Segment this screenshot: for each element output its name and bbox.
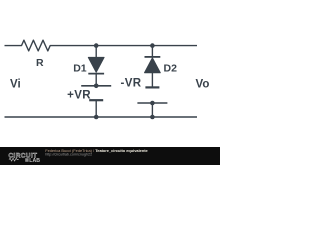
svg-text:http://circuitlab.com/cnugh22: http://circuitlab.com/cnugh22 xyxy=(45,153,92,157)
svg-text:-VR: -VR xyxy=(121,77,142,89)
svg-text:D2: D2 xyxy=(164,62,178,74)
svg-text:LAB: LAB xyxy=(29,158,40,164)
svg-text:R: R xyxy=(36,57,44,69)
svg-text:Vo: Vo xyxy=(196,78,210,90)
svg-text:+VR: +VR xyxy=(67,90,91,102)
svg-text:Vi: Vi xyxy=(10,79,21,91)
svg-text:D1: D1 xyxy=(73,62,87,74)
